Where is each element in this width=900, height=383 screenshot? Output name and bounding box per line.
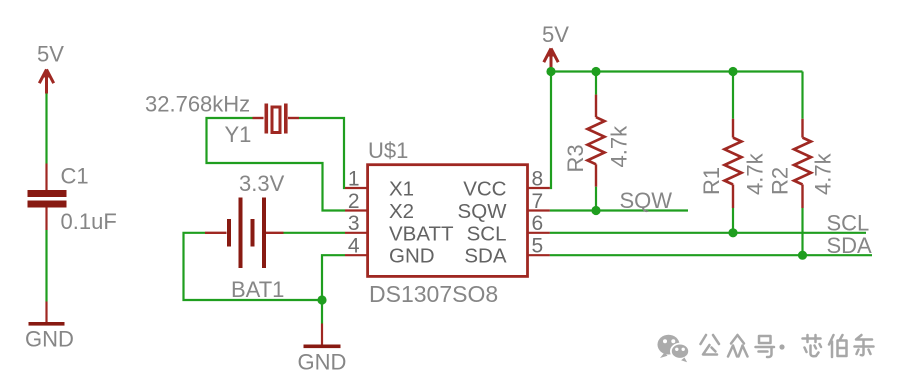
capacitor C1 bbox=[28, 164, 67, 231]
junction dot R2/SDA bbox=[798, 251, 807, 260]
pin 7 stub bbox=[528, 209, 550, 211]
svg-text:7: 7 bbox=[532, 190, 544, 213]
wire junction to ground bbox=[321, 300, 323, 324]
svg-text:GND: GND bbox=[298, 350, 347, 375]
svg-text:VCC: VCC bbox=[463, 178, 506, 201]
svg-text:R2: R2 bbox=[768, 167, 793, 195]
svg-text:3.3V: 3.3V bbox=[239, 171, 285, 196]
pin 6 stub bbox=[528, 232, 550, 234]
wire 5V down to pin8 (VCC) bbox=[550, 72, 551, 189]
battery BAT1 bbox=[205, 198, 284, 269]
svg-text:Y1: Y1 bbox=[225, 122, 252, 147]
power symbol 5V (left) arrow bbox=[39, 70, 53, 94]
op-amp U$1 IC body bbox=[368, 165, 528, 277]
svg-text:1: 1 bbox=[348, 167, 360, 190]
char · (middle dot) bbox=[779, 344, 784, 349]
svg-text:4.7k: 4.7k bbox=[743, 152, 768, 195]
svg-text:C1: C1 bbox=[61, 164, 89, 189]
svg-text:5V: 5V bbox=[37, 42, 64, 67]
svg-text:GND: GND bbox=[389, 245, 435, 268]
pin 8 stub bbox=[528, 187, 550, 189]
power symbol 5V (right) arrow bbox=[544, 49, 558, 72]
wire Y1 left lead to pin2 (X2) bbox=[207, 118, 346, 211]
wire battery minus down and right to junction bbox=[184, 233, 323, 300]
wire Y1 right lead to pin1 (X1) bbox=[299, 118, 345, 188]
svg-text:GND: GND bbox=[25, 327, 74, 352]
char 号 bbox=[756, 336, 775, 357]
wire 5V rail bbox=[551, 70, 803, 72]
wire 5V to C1 bbox=[45, 94, 47, 164]
pin 3 stub bbox=[345, 232, 368, 234]
resistor R2 bbox=[794, 72, 811, 256]
char 众 bbox=[728, 335, 748, 357]
node 5V junction dot at arrow bbox=[546, 67, 555, 76]
wire SCL net bbox=[550, 232, 866, 234]
pin 1 stub bbox=[345, 187, 368, 189]
char 伯 bbox=[829, 335, 847, 357]
svg-text:SCL: SCL bbox=[467, 222, 507, 245]
wire C1 to GND bbox=[45, 230, 47, 302]
resistor R3 bbox=[588, 72, 605, 211]
svg-text:2: 2 bbox=[348, 190, 360, 213]
svg-text:X2: X2 bbox=[389, 200, 414, 223]
svg-text:32.768kHz: 32.768kHz bbox=[145, 92, 250, 117]
watermark text 公众号 · 芯伯乐 bbox=[701, 335, 874, 357]
pin 4 stub bbox=[345, 254, 368, 256]
wire SQW net bbox=[550, 209, 688, 211]
pin 2 stub bbox=[345, 209, 368, 211]
char 公 bbox=[701, 335, 720, 355]
char 芯 bbox=[803, 335, 822, 356]
pin 5 stub bbox=[528, 254, 550, 256]
svg-text:6: 6 bbox=[532, 212, 544, 235]
wire junction up to pin4 (GND) bbox=[322, 255, 345, 300]
svg-text:SDA: SDA bbox=[827, 233, 873, 258]
svg-text:4: 4 bbox=[348, 235, 360, 258]
char 乐 bbox=[855, 335, 874, 355]
junction dot R1/SCL bbox=[728, 228, 737, 237]
svg-text:SQW: SQW bbox=[458, 200, 508, 223]
wire battery plus to pin3 (VBATT) bbox=[284, 232, 346, 234]
svg-text:SCL: SCL bbox=[827, 211, 870, 236]
crystal Y1 bbox=[253, 104, 300, 134]
junction dot below battery bbox=[317, 295, 326, 304]
svg-text:R1: R1 bbox=[699, 167, 724, 195]
svg-text:4.7k: 4.7k bbox=[607, 125, 632, 168]
svg-text:3: 3 bbox=[348, 212, 360, 235]
resistor R1 bbox=[725, 72, 742, 233]
junction dot rail/R1 bbox=[728, 67, 737, 76]
svg-text:U$1: U$1 bbox=[368, 138, 408, 163]
svg-text:BAT1: BAT1 bbox=[231, 277, 284, 302]
wire SDA net bbox=[550, 254, 872, 256]
svg-text:0.1uF: 0.1uF bbox=[61, 209, 117, 234]
svg-text:DS1307SO8: DS1307SO8 bbox=[369, 281, 498, 307]
svg-text:5V: 5V bbox=[542, 22, 569, 47]
ground (left) bbox=[29, 302, 65, 326]
svg-text:5: 5 bbox=[532, 235, 544, 258]
svg-text:4.7k: 4.7k bbox=[811, 152, 836, 195]
svg-text:SDA: SDA bbox=[464, 245, 506, 268]
svg-text:SQW: SQW bbox=[620, 188, 673, 213]
junction dot rail/R3 bbox=[591, 67, 600, 76]
svg-text:8: 8 bbox=[532, 167, 544, 190]
svg-text:VBATT: VBATT bbox=[389, 222, 454, 245]
watermark wechat icon bbox=[658, 335, 690, 363]
svg-text:R3: R3 bbox=[563, 144, 588, 172]
svg-text:X1: X1 bbox=[389, 178, 414, 201]
junction dot R3/SQW bbox=[591, 206, 600, 215]
ground (middle) bbox=[304, 324, 341, 349]
